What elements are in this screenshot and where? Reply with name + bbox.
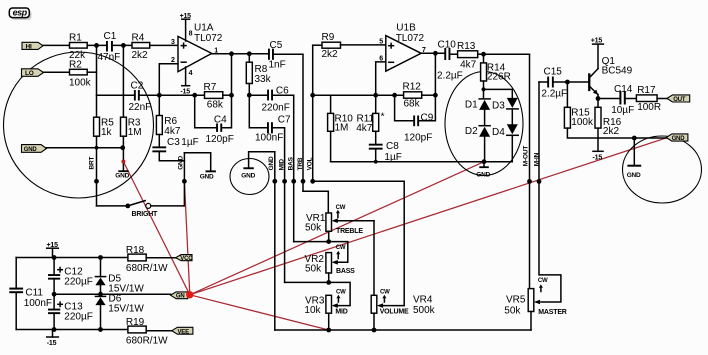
capacitor C13 (48, 294, 93, 329)
OUT connector (667, 95, 690, 103)
svg-text:BRT: BRT (89, 157, 96, 170)
svg-text:esp: esp (13, 8, 28, 18)
wire BRT down (96, 148, 98, 206)
svg-text:68k: 68k (207, 100, 224, 111)
wire LO to R2 (44, 71, 70, 73)
svg-text:BC549: BC549 (602, 65, 633, 76)
red line GN to pot ground rail (190, 295, 329, 330)
node GND bus (272, 179, 277, 184)
svg-text:500k: 500k (413, 305, 436, 316)
svg-text:R19: R19 (126, 317, 145, 328)
ground under diodes (476, 162, 490, 179)
svg-text:GND: GND (177, 155, 184, 169)
svg-text:3: 3 (171, 39, 175, 46)
svg-text:10k: 10k (304, 305, 321, 316)
svg-text:D3: D3 (492, 100, 505, 111)
svg-text:C8: C8 (386, 141, 399, 152)
svg-text:15V/1W: 15V/1W (108, 304, 144, 315)
svg-text:220nF: 220nF (262, 103, 290, 114)
svg-text:220µF: 220µF (64, 277, 93, 288)
wire R2 up to node (87, 71, 96, 73)
svg-text:2k2: 2k2 (322, 49, 339, 60)
resistor R19 (126, 317, 172, 346)
transistor Q1 (588, 45, 633, 107)
wire to M-OUT (484, 53, 530, 55)
ground under R3 (115, 170, 129, 179)
node D5/D6 (98, 292, 103, 297)
node pin6 (373, 93, 378, 98)
HI input connector (22, 42, 43, 50)
svg-text:R4: R4 (132, 32, 145, 43)
resistor R17 (636, 85, 667, 113)
wire C1 to node (113, 44, 132, 46)
svg-text:1M: 1M (335, 122, 349, 133)
svg-text:33k: 33k (255, 74, 272, 85)
svg-text:TRB: TRB (297, 157, 304, 170)
capacitor C3 (152, 135, 198, 161)
ground rail R10/C8/diodes (331, 161, 484, 163)
node VOL bus (310, 179, 315, 184)
op-amp U1A (171, 22, 223, 77)
capacitor C10 (437, 40, 463, 82)
wire R1 to node (87, 44, 106, 46)
resistor R9 (313, 32, 341, 60)
PSU 0V rail (54, 293, 170, 295)
diode D1 (465, 99, 490, 125)
svg-text:68k: 68k (404, 99, 421, 110)
svg-text:22nF: 22nF (129, 102, 152, 113)
node VR1/VR2 (326, 239, 331, 244)
svg-text:C1: C1 (104, 31, 117, 42)
svg-text:120pF: 120pF (206, 134, 234, 145)
red marker dot on R3 ground (121, 160, 125, 164)
wire U1A output (212, 53, 268, 55)
svg-text:MASTER: MASTER (538, 309, 567, 316)
svg-text:100R: 100R (637, 102, 661, 113)
svg-text:100nF: 100nF (255, 132, 283, 143)
zener D5 (95, 258, 144, 295)
svg-text:GND: GND (241, 172, 255, 179)
svg-text:M-IN: M-IN (533, 152, 540, 166)
svg-text:VOLUME: VOLUME (380, 308, 409, 315)
resistor R10 (328, 95, 354, 162)
Q1 -15 supply (593, 151, 604, 161)
node C9 left (392, 93, 397, 98)
node BAS bus (291, 179, 296, 184)
red star-ground annotation lines (123, 138, 666, 330)
svg-text:C11: C11 (25, 287, 43, 298)
capacitor C7 (249, 95, 291, 282)
svg-text:CW: CW (336, 289, 346, 295)
svg-text:4k7: 4k7 (460, 59, 477, 70)
red line GN to C3 ground node (184, 181, 189, 294)
capacitor C8 (369, 141, 402, 163)
star ground red node (186, 291, 193, 298)
node D5 top (98, 255, 103, 260)
wire diode top branch (484, 89, 513, 98)
node R8 bottom (247, 93, 252, 98)
svg-text:C3: C3 (167, 137, 180, 148)
pot VR2 bass (305, 242, 356, 283)
zener D6 (95, 294, 144, 330)
svg-text:R1: R1 (69, 32, 82, 43)
PSU +15 terminal (47, 242, 59, 258)
red line GN to output GND connector (190, 138, 667, 295)
node R1/C1 (94, 43, 99, 48)
svg-text:R9: R9 (322, 32, 335, 43)
pot VR3 mid (304, 282, 350, 330)
svg-text:TL072: TL072 (396, 33, 425, 44)
capacitor C14 (611, 84, 636, 116)
svg-text:50k: 50k (305, 222, 322, 233)
wire U1B output (421, 52, 444, 54)
resistor R5 (94, 95, 115, 148)
resistor R4 (132, 32, 150, 61)
svg-text:100k: 100k (69, 77, 92, 88)
svg-text:TREBLE: TREBLE (336, 228, 363, 235)
ground right of C3 (200, 170, 216, 180)
svg-text:C10: C10 (438, 40, 457, 51)
diode D2 (465, 126, 490, 162)
svg-text:BASS: BASS (336, 268, 355, 275)
svg-text:R18: R18 (126, 245, 145, 256)
resistor R16 (595, 107, 622, 151)
svg-text:MID: MID (278, 159, 285, 171)
svg-text:10µF: 10µF (611, 105, 634, 116)
svg-text:OUT: OUT (673, 97, 686, 103)
node C12 top (52, 255, 57, 260)
LO input connector (22, 69, 44, 77)
node diode ground (482, 159, 487, 164)
capacitor C15 (539, 67, 588, 100)
node C8 rail (374, 160, 378, 164)
svg-text:R2: R2 (69, 59, 82, 70)
capacitor C6 (249, 86, 293, 242)
node C13 bottom (52, 327, 57, 332)
wire R10 row (313, 94, 404, 96)
capacitor C1 (98, 31, 121, 63)
svg-text:-15: -15 (47, 340, 57, 347)
GND output connector (666, 134, 688, 142)
node feedback (157, 93, 162, 98)
svg-text:TL072: TL072 (194, 33, 223, 44)
node TRB bus (301, 179, 306, 184)
wire M-IN (539, 82, 561, 302)
svg-text:5: 5 (379, 39, 383, 46)
GND bus vertical (274, 152, 276, 330)
node C1/R4/R3 (121, 43, 126, 48)
capacitor C9 (395, 53, 436, 143)
svg-text:CW: CW (380, 289, 390, 295)
svg-text:U1B: U1B (396, 23, 416, 34)
svg-text:BAS: BAS (288, 156, 295, 170)
node R13/R14 (481, 52, 486, 57)
resistor R14 (481, 54, 511, 98)
svg-text:CW: CW (538, 278, 548, 284)
wire pin2 to feedback node (159, 64, 178, 95)
svg-text:D4: D4 (492, 127, 505, 138)
svg-text:VEE: VEE (178, 329, 190, 335)
svg-text:GND: GND (200, 173, 214, 180)
node MID bus (282, 179, 287, 184)
node VR3 rail (326, 328, 331, 333)
svg-text:C4: C4 (214, 114, 227, 125)
svg-text:VR4: VR4 (413, 294, 433, 305)
node emitter (596, 96, 601, 101)
resistor R6 (156, 95, 180, 137)
svg-text:R7: R7 (204, 82, 217, 93)
svg-text:*: * (381, 111, 385, 122)
wire pin6 down (376, 62, 386, 95)
svg-text:BRIGHT: BRIGHT (132, 211, 159, 218)
svg-text:R13: R13 (457, 41, 476, 52)
svg-text:M-OUT: M-OUT (523, 146, 530, 167)
svg-text:U1A: U1A (194, 22, 214, 33)
ground in output circle (627, 138, 642, 179)
resistor R8 (246, 54, 271, 95)
highlight circle input stage (4, 52, 154, 198)
node diode top (482, 87, 486, 91)
node C4 left (192, 93, 197, 98)
GND input connector (22, 145, 47, 153)
svg-text:680R/1W: 680R/1W (126, 263, 168, 274)
wire C2 to R7 row (140, 94, 205, 96)
svg-text:CW: CW (336, 205, 346, 211)
node R3 top of ground (120, 145, 125, 150)
wire VOL bus top (312, 45, 314, 181)
svg-text:100nF: 100nF (24, 298, 52, 309)
svg-text:100k: 100k (571, 117, 594, 128)
svg-text:2k2: 2k2 (132, 50, 149, 61)
node D6 bottom (98, 327, 103, 332)
node output (229, 51, 234, 56)
highlight circle tone ground (230, 159, 269, 195)
svg-text:4k7: 4k7 (164, 126, 181, 137)
resistor R3 (121, 45, 142, 170)
resistor R7 (204, 82, 232, 111)
svg-text:226R: 226R (487, 71, 511, 82)
svg-text:R17: R17 (637, 85, 656, 96)
pot ground rail (275, 329, 531, 331)
svg-text:C7: C7 (278, 115, 291, 126)
svg-text:47nF: 47nF (98, 52, 121, 63)
svg-text:GND: GND (627, 172, 641, 179)
svg-text:HI: HI (26, 44, 32, 51)
node M-OUT (527, 179, 532, 184)
wire TRB to VR1 (303, 191, 328, 213)
node C12/C13 (52, 292, 57, 297)
svg-text:C2: C2 (131, 81, 144, 92)
bright switch (97, 201, 185, 219)
U1A -15 supply (180, 67, 190, 95)
wire MID to VR3 top (285, 281, 329, 283)
resistor R18 (126, 245, 176, 274)
node base/R15 (565, 80, 570, 85)
svg-text:50k: 50k (305, 263, 322, 274)
GND star connector (170, 292, 187, 300)
svg-text:-15: -15 (593, 155, 603, 162)
pot VR5 master (504, 278, 567, 330)
svg-text:D1: D1 (465, 99, 478, 110)
svg-text:C15: C15 (544, 67, 563, 78)
svg-text:-15: -15 (180, 88, 190, 95)
capacitor C4 (195, 54, 234, 145)
node M-IN (537, 179, 542, 184)
svg-text:1µF: 1µF (181, 137, 198, 148)
wire BAS to VR2 top (294, 241, 329, 243)
svg-text:C9: C9 (421, 113, 434, 124)
svg-text:R12: R12 (403, 82, 422, 93)
wire emitter to C14 (598, 98, 620, 100)
PSU +15 rail (16, 257, 128, 259)
node C3 ground dot (182, 179, 187, 184)
svg-text:4: 4 (189, 70, 193, 77)
resistor R2 (69, 59, 92, 88)
node VR4 rail (372, 328, 377, 333)
svg-text:MID: MID (335, 308, 347, 315)
svg-text:GND: GND (268, 156, 275, 170)
svg-text:220µF: 220µF (64, 311, 93, 322)
svg-text:CW: CW (336, 245, 346, 251)
svg-text:GND: GND (476, 172, 490, 179)
svg-text:GN: GN (176, 294, 185, 300)
svg-text:2.2µF: 2.2µF (541, 89, 567, 100)
node BRT dot (94, 179, 99, 184)
svg-text:1M: 1M (128, 127, 142, 138)
pot VR4 volume (371, 221, 435, 330)
capacitor C2 (129, 81, 152, 113)
diode D3 (492, 98, 518, 124)
svg-text:2.2µF: 2.2µF (437, 71, 463, 82)
svg-text:VCC: VCC (180, 256, 193, 262)
resistor R1 (69, 32, 87, 61)
svg-text:GND: GND (115, 173, 129, 180)
svg-text:GND: GND (672, 136, 686, 142)
resistor R13 (457, 41, 484, 70)
svg-text:50k: 50k (504, 305, 521, 316)
red line GN to R3 ground (123, 162, 189, 295)
node R7 right (229, 93, 234, 98)
node VOL/R10 (310, 93, 315, 98)
wire VOL to VR4 wiper (313, 181, 405, 305)
highlight ellipse diode clipper (445, 72, 523, 176)
wire bright to C3 gnd node (183, 153, 185, 206)
VCC connector (176, 255, 194, 262)
svg-text:C14: C14 (614, 84, 633, 95)
VEE connector (172, 327, 193, 335)
resistor R12 (403, 82, 436, 110)
PSU -15 rail (16, 329, 128, 331)
wire to right ground (184, 153, 210, 171)
svg-text:2k2: 2k2 (603, 126, 620, 137)
Q1 +15 supply (591, 38, 604, 45)
pot VR1 treble (305, 205, 374, 241)
wire HI to R1 (43, 44, 70, 46)
tone ground circle symbol (241, 152, 274, 180)
resistor R11 (356, 95, 384, 144)
capacitor C11 (9, 258, 52, 330)
capacitor C12 (48, 258, 93, 295)
node R5/GND wire (95, 146, 99, 150)
diode D4 (484, 124, 518, 161)
node R8 top (247, 51, 252, 56)
resistor R15 (564, 82, 666, 138)
PSU -15 terminal (47, 330, 59, 347)
U1A +15 supply (180, 13, 192, 41)
svg-text:1nF: 1nF (269, 60, 286, 71)
svg-text:D2: D2 (465, 126, 478, 137)
svg-text:120pF: 120pF (404, 133, 432, 144)
wire C5 to TRB bus (274, 54, 303, 191)
svg-text:GND: GND (24, 147, 38, 153)
node R12 right (433, 93, 438, 98)
node U1B output (433, 51, 438, 56)
wire R9 to U1B pin5 (341, 44, 386, 46)
svg-text:C5: C5 (270, 40, 283, 51)
ESP logo (9, 8, 31, 20)
svg-text:4k7: 4k7 (356, 123, 373, 134)
highlight circle output ground (623, 136, 702, 203)
wire R4 to U1A pin3 (150, 44, 178, 46)
capacitor C5 (268, 40, 286, 70)
node VR2/VR3 (326, 280, 331, 285)
svg-text:LO: LO (25, 70, 34, 77)
wire M-OUT (529, 54, 531, 288)
node output ground (632, 136, 637, 141)
op-amp U1B (379, 23, 426, 72)
wire GND connector to R3 ground (47, 147, 123, 149)
svg-text:1k: 1k (101, 127, 113, 138)
svg-text:680R/1W: 680R/1W (126, 335, 168, 346)
svg-text:VR5: VR5 (506, 294, 526, 305)
svg-text:8: 8 (189, 31, 193, 38)
red line GN to diode clipper ground (190, 162, 484, 295)
wire node down to C2 row (97, 45, 135, 95)
